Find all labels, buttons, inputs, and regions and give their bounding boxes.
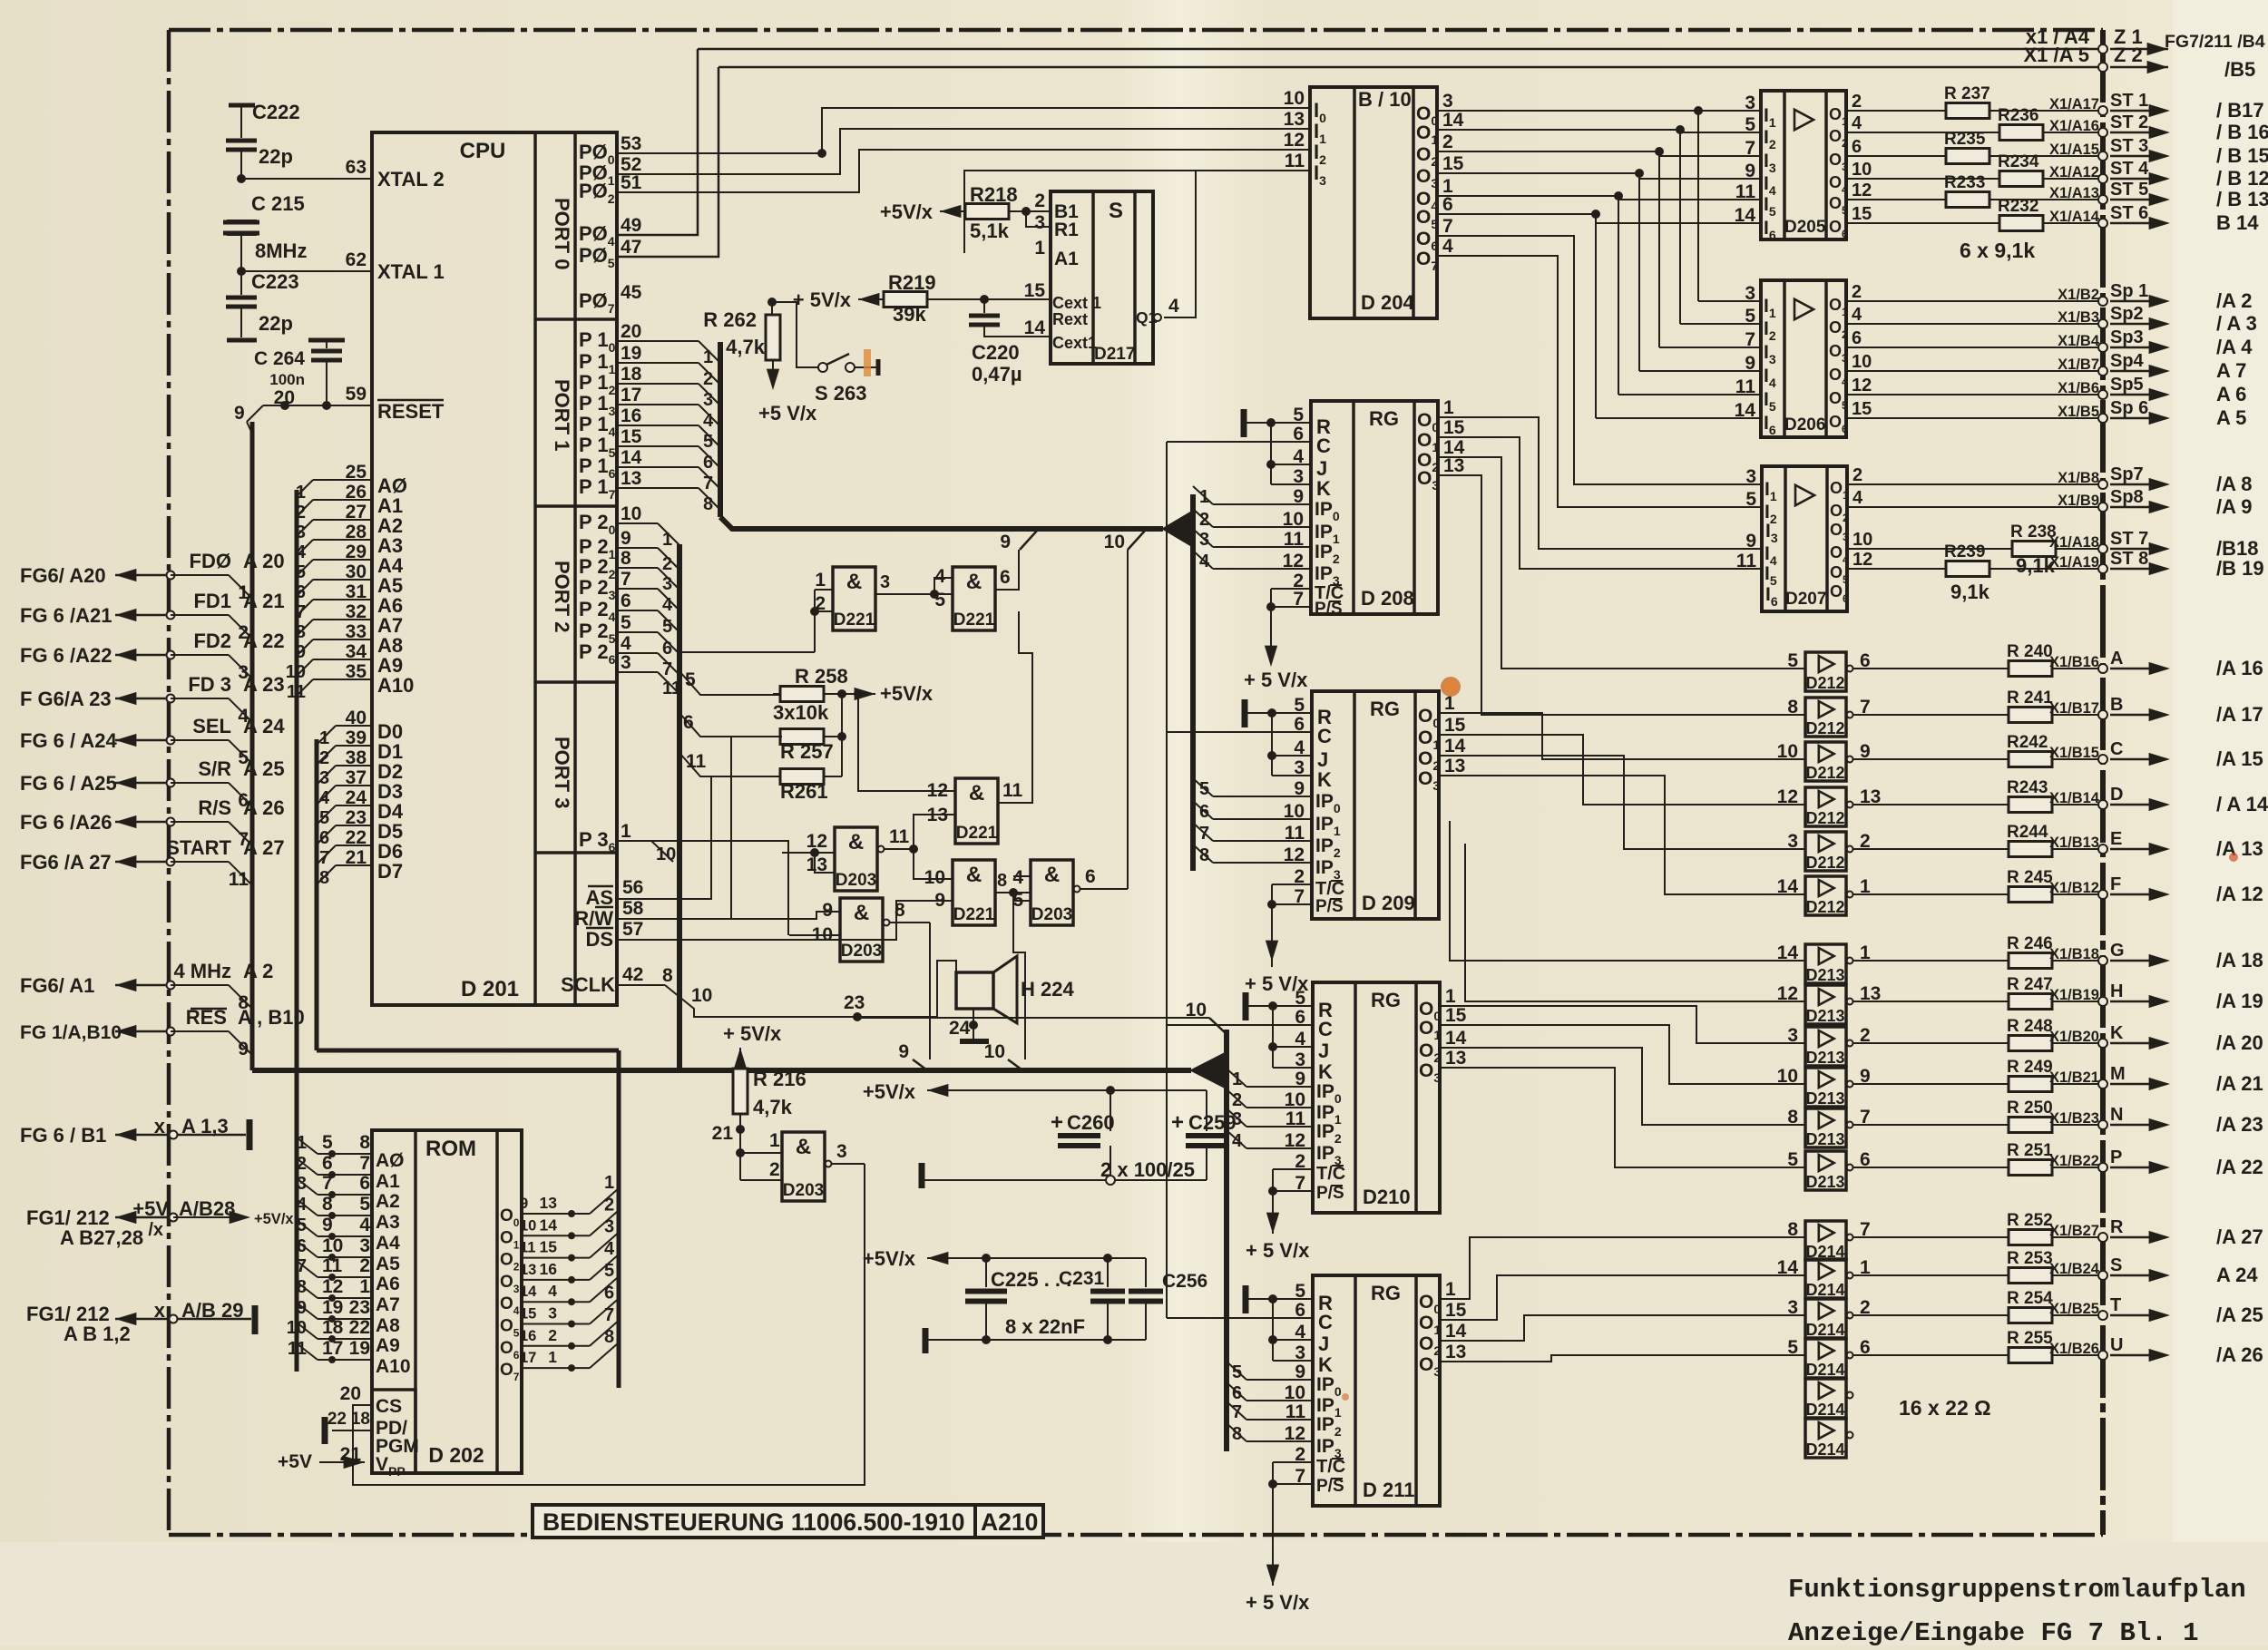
svg-text:4: 4 [934, 566, 945, 587]
resistor R261 [780, 769, 824, 785]
svg-text:3x10k: 3x10k [773, 701, 829, 724]
net row F [1853, 893, 2103, 895]
svg-text:1: 1 [296, 483, 306, 503]
svg-text:A 22: A 22 [243, 630, 285, 652]
svg-text:11: 11 [1736, 551, 1757, 571]
svg-text:8: 8 [621, 548, 631, 569]
svg-text:C: C [1317, 725, 1332, 747]
buffer D214 #5 [1805, 1379, 1846, 1418]
svg-text:A 7: A 7 [2216, 359, 2246, 382]
svg-text:FG 6 /A21: FG 6 /A21 [20, 604, 112, 627]
svg-text:D: D [2110, 785, 2123, 805]
svg-text:D213: D213 [1805, 1173, 1844, 1191]
svg-text:9: 9 [1000, 532, 1011, 552]
svg-text:C256: C256 [1162, 1271, 1207, 1292]
address bus A0-A10 vertical [295, 490, 299, 1372]
svg-text:X1/A18: X1/A18 [2049, 534, 2099, 551]
wire D203a out to D221d [914, 849, 953, 879]
svg-text:A 1,3: A 1,3 [181, 1115, 229, 1137]
svg-text:10: 10 [1284, 801, 1305, 822]
svg-text:X1/B18: X1/B18 [2049, 946, 2099, 962]
svg-text:63: 63 [346, 157, 367, 178]
svg-text:18: 18 [351, 1410, 370, 1429]
capacitor C225 [985, 1258, 987, 1287]
svg-text:1: 1 [662, 530, 672, 550]
svg-text:9: 9 [1745, 161, 1755, 181]
svg-text:/A 13: /A 13 [2216, 837, 2263, 860]
wire RESET net [263, 405, 372, 406]
net row T [1853, 1314, 2103, 1316]
wire P36 net vertical [617, 841, 788, 935]
border frame left [167, 30, 171, 1535]
svg-text:2: 2 [1034, 190, 1045, 211]
net row E [1853, 848, 2103, 850]
svg-text:9: 9 [1295, 1069, 1305, 1089]
buffer D214 #3 [1805, 1299, 1846, 1338]
svg-text:14: 14 [540, 1216, 558, 1234]
svg-text:FG6/ A1: FG6/ A1 [20, 974, 94, 997]
svg-text:C: C [1318, 1018, 1333, 1040]
svg-text:PORT 2: PORT 2 [551, 561, 573, 632]
svg-text:53: 53 [621, 133, 641, 154]
svg-text:6: 6 [1232, 1383, 1242, 1403]
net row K [1853, 1042, 2103, 1044]
svg-text:4: 4 [359, 1215, 370, 1235]
svg-text:P/S: P/S [1316, 1184, 1344, 1203]
svg-text:D214: D214 [1805, 1361, 1844, 1379]
wire D203a input from P36 net [782, 852, 815, 854]
wire P00 to D204 I0 [617, 152, 822, 154]
wire D209 O2 to driver E [1439, 756, 1805, 849]
svg-text:+ 5V/x: + 5V/x [793, 288, 852, 311]
svg-text:A210: A210 [981, 1508, 1038, 1536]
CPU port dividers [535, 317, 617, 321]
svg-text:19: 19 [621, 343, 641, 364]
svg-text:6: 6 [322, 1153, 333, 1174]
svg-text:FG 6 / A25: FG 6 / A25 [20, 772, 117, 795]
svg-text:/ B 16: / B 16 [2216, 121, 2268, 143]
svg-text:10: 10 [287, 1318, 307, 1338]
svg-text:D213: D213 [1805, 1089, 1844, 1108]
svg-text:12: 12 [1285, 1130, 1305, 1151]
svg-text:PORT 1: PORT 1 [551, 379, 573, 451]
data bus lower run [317, 1049, 619, 1053]
svg-text:4: 4 [1168, 296, 1179, 317]
svg-text:12: 12 [1777, 983, 1798, 1004]
svg-text:FG 6 / A24: FG 6 / A24 [20, 729, 118, 752]
capacitor C264 100n [308, 338, 345, 343]
svg-text:/A 16: /A 16 [2216, 657, 2263, 679]
resistor R218 5,1k [965, 204, 1009, 220]
svg-text:6: 6 [1000, 567, 1011, 588]
svg-text:15: 15 [1445, 1300, 1467, 1321]
svg-text:Sp3: Sp3 [2110, 327, 2144, 347]
port1 bundle wires [617, 340, 699, 342]
svg-text:49: 49 [621, 215, 641, 236]
svg-text:R 249: R 249 [2007, 1058, 2053, 1077]
NAND gate D203a [835, 827, 877, 891]
wire D221c in13 from D203a [914, 815, 955, 849]
capacitor C223 22p [240, 271, 242, 295]
svg-text:1: 1 [319, 728, 329, 748]
svg-text:4: 4 [1852, 305, 1862, 325]
svg-text:100n: 100n [269, 371, 305, 388]
svg-text:2: 2 [297, 1154, 307, 1174]
svg-text:9: 9 [322, 1215, 333, 1235]
ground speaker [960, 1039, 989, 1044]
register D 209 T/C P/S tie to +5V/x [1272, 884, 1312, 885]
net row S [1853, 1274, 2103, 1276]
svg-text:8: 8 [1232, 1424, 1242, 1444]
svg-text:9,1k: 9,1k [1950, 581, 1990, 603]
wires data bus to ROM O pins [522, 1213, 590, 1215]
wire D221c out 11 [998, 611, 1032, 803]
svg-text:22p: 22p [259, 312, 293, 335]
ground C225 group [923, 1328, 929, 1353]
svg-text:7: 7 [359, 1153, 370, 1174]
svg-text:5: 5 [1745, 114, 1755, 135]
svg-text:A1: A1 [1054, 249, 1079, 269]
ROM D202 body [372, 1130, 522, 1473]
svg-text:20: 20 [274, 387, 295, 408]
title block BEDIENSTEUERUNG 11006.500-1910 A210 [533, 1505, 1043, 1538]
svg-text:R/S: R/S [198, 796, 231, 819]
svg-text:3: 3 [1034, 212, 1045, 233]
svg-text:&: & [854, 901, 869, 925]
svg-text:X1/A15: X1/A15 [2049, 142, 2099, 158]
svg-text:5,1k: 5,1k [970, 220, 1010, 242]
svg-text:+ 5 V/x: + 5 V/x [1244, 669, 1308, 691]
svg-text:2: 2 [319, 748, 329, 768]
svg-text:6: 6 [1852, 328, 1862, 348]
svg-text:H 224: H 224 [1021, 978, 1074, 1001]
svg-text:3: 3 [359, 1235, 370, 1256]
wire D221a input from P26 [814, 611, 816, 652]
svg-text:5: 5 [296, 562, 306, 582]
wire speaker to ground [973, 1009, 974, 1041]
svg-text:7: 7 [703, 474, 713, 493]
svg-text:11: 11 [686, 751, 707, 772]
svg-text:A3: A3 [376, 1212, 400, 1233]
svg-text:11: 11 [322, 1255, 343, 1276]
svg-text:FG 6 / B1: FG 6 / B1 [20, 1124, 106, 1147]
svg-text:20: 20 [621, 321, 641, 342]
svg-text:ST 8: ST 8 [2110, 549, 2148, 569]
wire D209 O1 to driver D [1439, 735, 1805, 805]
svg-text:17: 17 [621, 385, 641, 405]
svg-text:R 255: R 255 [2007, 1329, 2053, 1348]
svg-text:11: 11 [1285, 151, 1305, 171]
svg-text:X1/B19: X1/B19 [2049, 987, 2099, 1003]
register feed bus vertical D208/D209 [1190, 494, 1196, 871]
svg-text:X1/B26: X1/B26 [2049, 1341, 2099, 1357]
capacitor C259 [1206, 1090, 1207, 1131]
svg-text:/A 20: /A 20 [2216, 1031, 2263, 1054]
svg-text:11: 11 [229, 869, 249, 890]
svg-text:9: 9 [296, 642, 306, 662]
svg-text:A1: A1 [376, 1171, 400, 1192]
svg-text:5: 5 [604, 1261, 614, 1281]
svg-text:START: START [166, 836, 231, 859]
svg-text:3: 3 [621, 652, 631, 673]
register D 208 [1311, 401, 1438, 614]
svg-text:A10: A10 [376, 1356, 411, 1377]
border frame top [169, 28, 2103, 33]
svg-text:R 247: R 247 [2007, 975, 2053, 994]
svg-text:2: 2 [604, 1195, 614, 1215]
buffer D214 #1 [1805, 1221, 1846, 1260]
svg-text:CPU: CPU [460, 139, 506, 163]
svg-text:11: 11 [288, 1339, 307, 1359]
svg-text:D221: D221 [953, 905, 995, 924]
wire D221a out to D221b [875, 593, 953, 595]
svg-text:12: 12 [1852, 181, 1872, 200]
border frame right / X1 connector bus [2100, 30, 2106, 1535]
svg-text:14: 14 [1777, 876, 1799, 897]
speaker H224 [956, 972, 993, 1009]
capacitor C231 [1107, 1258, 1109, 1287]
svg-text:XTAL 2: XTAL 2 [377, 168, 445, 190]
svg-text:R219: R219 [888, 271, 936, 294]
port2 bus vertical [677, 544, 682, 1070]
svg-text:15: 15 [1445, 1005, 1467, 1026]
svg-text:5: 5 [1787, 1337, 1798, 1358]
svg-text:4,7k: 4,7k [726, 336, 766, 358]
net row Sp 1 [1846, 300, 2103, 302]
svg-text:SEL: SEL [192, 715, 231, 737]
svg-text:M: M [2110, 1064, 2126, 1084]
svg-text:19: 19 [349, 1338, 370, 1359]
svg-text:X1/B15: X1/B15 [2049, 745, 2099, 761]
buffer D212 #4 [1805, 787, 1846, 826]
svg-text:1: 1 [1232, 1069, 1242, 1089]
svg-text:8: 8 [296, 622, 306, 642]
svg-text:2: 2 [1852, 92, 1862, 112]
svg-text:+5V: +5V [132, 1197, 169, 1220]
svg-text:14: 14 [1024, 317, 1046, 338]
svg-text:x: x [154, 1115, 166, 1137]
svg-text:3: 3 [296, 522, 306, 542]
svg-text:K: K [1318, 1353, 1333, 1376]
svg-text:A 24: A 24 [243, 715, 285, 737]
capacitor C220 0,47u [983, 299, 985, 313]
svg-text:4: 4 [1853, 488, 1863, 508]
ROM PD/PGM tie bar [332, 1430, 372, 1431]
svg-text:+ 5 V/x: + 5 V/x [1246, 1591, 1310, 1614]
svg-text:ST 2: ST 2 [2110, 112, 2148, 132]
svg-text:X1/B27: X1/B27 [2049, 1223, 2099, 1239]
svg-text:58: 58 [622, 898, 644, 919]
svg-text:7: 7 [319, 848, 329, 868]
svg-text:7: 7 [662, 659, 672, 679]
svg-text:ST 7: ST 7 [2110, 529, 2148, 549]
svg-text:C260: C260 [1067, 1111, 1115, 1134]
ROM control pins CS PD/PGM Vpp [372, 1390, 415, 1473]
svg-text:Cext 1: Cext 1 [1052, 294, 1101, 312]
svg-text:8: 8 [297, 1277, 307, 1297]
svg-text:A 23: A 23 [243, 673, 285, 696]
svg-text:A: A [2110, 649, 2123, 669]
svg-text:15: 15 [1024, 280, 1046, 301]
register D210 T/C P/S tie to +5V/x [1273, 1168, 1313, 1170]
svg-text:47: 47 [621, 237, 641, 258]
svg-text:Sp 6: Sp 6 [2110, 398, 2148, 418]
svg-text:10: 10 [1186, 1000, 1207, 1020]
net row ST 1 [1846, 110, 2103, 112]
svg-text:7: 7 [1745, 329, 1755, 350]
svg-text:C 264: C 264 [254, 348, 305, 369]
svg-text:10: 10 [1853, 530, 1872, 550]
svg-text:/A 25: /A 25 [2216, 1303, 2263, 1326]
svg-text:+: + [1051, 1110, 1063, 1135]
svg-text:4: 4 [319, 788, 330, 808]
wires pullups from port2 bus [679, 671, 781, 695]
svg-text:FG 6 /A22: FG 6 /A22 [20, 644, 112, 667]
wire D211 O0 to driver R [1440, 1237, 1805, 1299]
svg-text:X1/B7: X1/B7 [2058, 356, 2099, 373]
svg-text:BEDIENSTEUERUNG 11006.500-191: BEDIENSTEUERUNG 11006.500-1910 [543, 1508, 964, 1536]
svg-text:59: 59 [346, 384, 367, 405]
svg-text:4,7k: 4,7k [753, 1096, 793, 1118]
wire R218 +5V/x [940, 205, 961, 218]
svg-text:9: 9 [898, 1041, 909, 1062]
svg-text:&: & [969, 781, 984, 805]
svg-text:A 26: A 26 [243, 796, 285, 819]
svg-text:X1/B21: X1/B21 [2049, 1069, 2099, 1086]
svg-text:X1/B2: X1/B2 [2058, 287, 2099, 303]
buffer D213 #5 [1805, 1108, 1846, 1147]
svg-text:23: 23 [844, 992, 865, 1013]
buffer D212 #2 [1805, 698, 1846, 737]
switch S263 [818, 363, 827, 372]
svg-text:1: 1 [769, 1130, 780, 1151]
buffer D212 #5 [1805, 832, 1846, 871]
svg-text:C: C [1318, 1311, 1333, 1333]
left/port2 bundle horizontal to registers [252, 1068, 1191, 1073]
svg-text:7: 7 [604, 1305, 614, 1325]
buffer D212 #3 [1805, 742, 1846, 781]
wire P36 join [617, 840, 651, 842]
svg-text:+: + [1171, 1110, 1184, 1135]
svg-text:45: 45 [621, 282, 642, 303]
svg-text:62: 62 [346, 249, 367, 270]
svg-text:6: 6 [683, 712, 694, 733]
left bus vertical (FD/control signals) [250, 422, 255, 1070]
crystal C215 8MHz [223, 220, 259, 225]
svg-text:7: 7 [1745, 138, 1755, 159]
wire Z1 drop to P04 [617, 49, 698, 235]
net row ST 2 [1846, 132, 2103, 133]
svg-text:D203: D203 [783, 1181, 824, 1200]
wire D211 O3 to driver U [1440, 1355, 1805, 1362]
svg-text:&: & [846, 570, 862, 594]
svg-text:+5V/x: +5V/x [254, 1211, 294, 1227]
net row ST 6 [1846, 222, 2103, 224]
svg-text:A10: A10 [377, 674, 414, 697]
svg-text:X1/B20: X1/B20 [2049, 1029, 2099, 1045]
svg-text:R 248: R 248 [2007, 1017, 2053, 1036]
svg-text:1: 1 [815, 570, 826, 591]
svg-text:D213: D213 [1805, 1049, 1844, 1067]
svg-text:D207: D207 [1785, 590, 1826, 609]
port2 bundle wires [617, 522, 658, 524]
svg-text:FG 1/A,B10: FG 1/A,B10 [20, 1022, 122, 1043]
svg-text:3: 3 [297, 1174, 307, 1194]
svg-text:D221: D221 [956, 824, 998, 843]
svg-text:5: 5 [322, 1132, 333, 1153]
svg-text:Sp 1: Sp 1 [2110, 281, 2148, 301]
border frame bottom [169, 1533, 2103, 1538]
svg-text:B / 10: B / 10 [1358, 88, 1412, 111]
bundle diamond split to D208/D209 [1161, 509, 1195, 549]
svg-text:FD2: FD2 [193, 630, 231, 652]
svg-text:6: 6 [604, 1284, 614, 1303]
svg-text:5: 5 [1745, 306, 1755, 327]
wire P02 to D204 I2 [617, 150, 1310, 192]
slash join 10 from gate D221d [1008, 1059, 1025, 1072]
svg-text:5: 5 [1232, 1362, 1242, 1382]
svg-text:D 211: D 211 [1363, 1479, 1415, 1501]
wire D204 O6 to D207 I1 [1437, 236, 1762, 484]
svg-text:5: 5 [662, 617, 672, 637]
register D210 R/J/K tie [1243, 992, 1249, 1020]
svg-text:P/S: P/S [1315, 897, 1344, 916]
svg-text:10: 10 [1852, 352, 1872, 372]
svg-text:X1/A14: X1/A14 [2049, 209, 2100, 225]
buffer D213 #2 [1805, 985, 1846, 1024]
svg-text:10: 10 [924, 867, 945, 888]
svg-text:11: 11 [1286, 1401, 1306, 1422]
buffer D213 #3 [1805, 1027, 1846, 1066]
svg-text:X1/B6: X1/B6 [2058, 380, 2099, 396]
svg-text:ST 5: ST 5 [2110, 180, 2148, 200]
svg-text:5: 5 [1787, 650, 1798, 671]
wires pullup common +5V/x [824, 693, 858, 695]
svg-text:RG: RG [1371, 1282, 1401, 1304]
svg-text:2: 2 [359, 1255, 370, 1276]
wire D209 O3 to driver F [1439, 776, 1805, 894]
svg-text:12: 12 [322, 1276, 343, 1297]
clock line to register C inputs [1166, 442, 1168, 1318]
svg-text:6: 6 [296, 582, 306, 602]
resistor R257 [780, 729, 824, 745]
svg-text:8 x 22nF: 8 x 22nF [1005, 1315, 1085, 1338]
svg-text:11: 11 [889, 826, 910, 847]
svg-text:8: 8 [322, 1194, 333, 1215]
svg-text:5: 5 [1199, 779, 1209, 799]
slash join 9 from gate D221b [1020, 531, 1037, 550]
buffer D214 #4 [1805, 1339, 1846, 1378]
svg-text:9: 9 [1293, 486, 1304, 507]
svg-text:FG 6 /A26: FG 6 /A26 [20, 811, 112, 834]
svg-text:S 263: S 263 [815, 382, 867, 405]
svg-text:6: 6 [1442, 194, 1453, 215]
svg-text:15: 15 [621, 426, 642, 447]
svg-text:/A 15: /A 15 [2216, 747, 2263, 770]
svg-text:Sp4: Sp4 [2110, 351, 2145, 371]
svg-text:/ A 14: / A 14 [2216, 793, 2268, 815]
buffer D205 [1761, 91, 1846, 239]
svg-text:D221: D221 [953, 610, 995, 630]
svg-text:R234: R234 [1998, 152, 2039, 171]
svg-text:10: 10 [1285, 1382, 1305, 1403]
svg-text:/A 18: /A 18 [2216, 949, 2263, 971]
svg-text:8: 8 [604, 1327, 614, 1347]
wire D208 O1 to D207 I5 [1438, 437, 1762, 569]
buffer D206 [1761, 280, 1846, 437]
svg-text:13: 13 [540, 1194, 558, 1212]
svg-text:A 25: A 25 [243, 757, 285, 780]
